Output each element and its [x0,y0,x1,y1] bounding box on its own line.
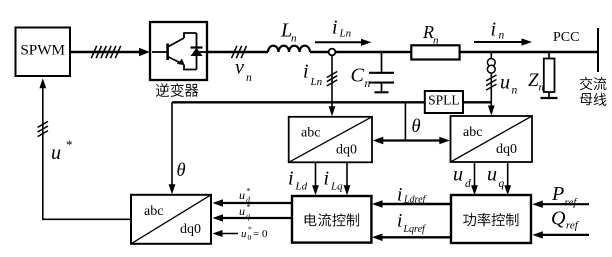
inductor Ln [268,46,310,52]
wire iLd output [312,162,319,195]
arrow iLn current direction [315,39,372,46]
svg-text:u: u [239,188,245,202]
svg-text:0: 0 [248,233,252,242]
wire inverter to inductor with vn hatch [207,46,268,58]
wire uq output [504,162,511,195]
capacitor Cn [369,52,394,92]
svg-text:Z: Z [528,70,539,91]
svg-text:u: u [500,71,510,93]
svg-text:θ: θ [177,161,186,181]
wire uq* command [213,214,293,221]
wire theta drop to inverse transform [169,102,176,194]
svg-text:i: i [332,17,338,39]
svg-text:abc: abc [144,204,163,219]
svg-text:SPWM: SPWM [20,41,65,58]
transistor emitter arrow [177,59,185,65]
svg-text:n: n [433,35,439,47]
wire SPWM to inverter with gating-signal hatch [70,46,150,58]
svg-text:d: d [465,178,471,190]
wire iLqref command [372,234,452,242]
svg-text:n: n [539,82,545,94]
svg-text:abc: abc [463,125,482,140]
svg-text:*: * [66,137,73,152]
svg-text:Ln: Ln [339,28,352,40]
svg-text:C: C [351,65,365,87]
wire Rn to PCC bus [460,51,598,54]
svg-text:n: n [365,78,371,90]
wire ud* command [213,199,293,206]
svg-text:n: n [499,30,505,42]
svg-text:q: q [499,178,505,190]
svg-text:dq0: dq0 [336,143,357,158]
wire un sense down with hatch, into abc/dq0 (voltage) [486,73,496,116]
svg-text:SPLL: SPLL [428,93,460,108]
svg-text:ref: ref [565,197,579,209]
block current control 电流控制 [292,196,371,243]
svg-text:ref: ref [566,220,580,232]
wire Qref input [532,231,589,238]
svg-text:Lq: Lq [330,181,343,193]
voltage probe un (double circle) [487,52,495,73]
svg-text:Ldref: Ldref [403,195,427,206]
svg-text:Q: Q [551,208,566,230]
svg-text:Ln: Ln [310,76,323,88]
svg-text:*: * [247,187,251,196]
svg-text:u: u [487,164,497,186]
label inverter 逆变器 [156,83,198,97]
svg-text:θ: θ [412,117,421,137]
block abc/dq0 current transform U2 [289,117,372,163]
wire iLq output [344,162,351,195]
transistor IGBT inside inverter [152,33,197,70]
svg-text:*: * [248,225,252,234]
wire un junction to SPLL input [463,101,491,103]
block SPLL [425,91,463,113]
svg-text:i: i [303,60,309,82]
svg-text:u: u [51,142,61,164]
wire Pref input [532,201,589,208]
svg-text:q: q [246,212,250,221]
wire SPLL theta output (to left corner) [172,101,425,103]
block abc/dq0 voltage transform U3 [451,116,533,162]
svg-text:i: i [288,168,294,190]
diode antiparallel inside inverter [191,33,207,70]
impedance Zn [544,52,555,97]
wire u* horizontal into inverse transform [42,218,131,220]
block SPWM [16,28,71,77]
block inverter (box) [150,22,207,80]
svg-text:i: i [397,184,402,205]
svg-text:i: i [491,19,497,41]
label AC bus 交流母线 [580,77,607,106]
wire inductor to Rn [310,51,412,54]
svg-text:Ld: Ld [295,181,308,193]
svg-text:n: n [291,33,297,45]
ground for Zn [541,97,558,99]
arrow in current direction [474,38,532,45]
wire u0*=0 constant [213,230,239,237]
block abc/dq0 inverse transform U4 [131,195,211,244]
wire ud output [471,162,478,195]
svg-text:dq0: dq0 [180,222,201,237]
ground for Cn [375,91,389,93]
node junction on rail (sense tap) [329,49,336,56]
svg-text:i: i [324,168,330,190]
svg-text:n: n [512,85,518,97]
svg-text:u: u [241,228,247,240]
svg-text:Lqref: Lqref [403,224,427,235]
resistor Rn [411,45,459,59]
svg-text:PCC: PCC [553,30,579,45]
svg-text:i: i [397,211,402,232]
AC bus bar [597,28,599,72]
svg-text:v: v [235,57,244,79]
wire theta double arrow between transforms [373,137,450,145]
wire theta branch down [404,102,406,140]
svg-text:= 0: = 0 [253,228,268,240]
wire iLdref command [372,200,452,208]
svg-text:u: u [239,204,245,218]
svg-text:dq0: dq0 [496,142,517,157]
svg-text:*: * [247,203,251,212]
block power control 功率控制 [451,195,531,243]
svg-text:u: u [453,164,463,186]
wire iLn sense line down with hatch [327,55,337,116]
wire u* reference up into SPWM with hatch [38,78,48,219]
svg-text:P: P [551,183,564,205]
svg-text:n: n [246,72,252,84]
svg-text:abc: abc [301,126,320,141]
